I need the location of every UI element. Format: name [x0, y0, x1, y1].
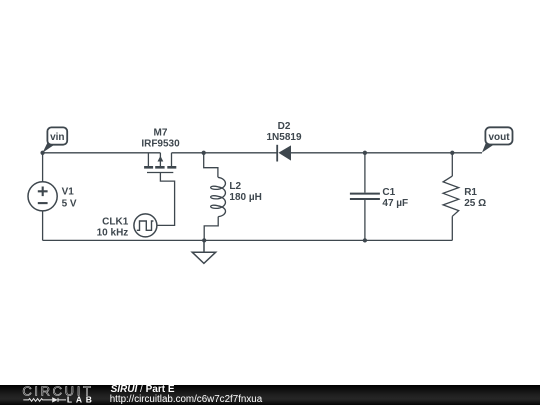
label R1	[464, 187, 486, 209]
node C1 top	[363, 151, 367, 155]
wire top-mid rail	[172, 152, 278, 154]
ground	[192, 240, 216, 263]
node L2 bottom	[202, 238, 206, 242]
diode D2	[277, 145, 291, 162]
svg-text:LAB: LAB	[67, 395, 92, 405]
svg-text:V1: V1	[62, 186, 75, 197]
label M7	[141, 128, 180, 150]
svg-text:CLK1: CLK1	[102, 217, 129, 228]
transistor M7 (PMOS)	[144, 153, 176, 173]
svg-text:5 V: 5 V	[62, 199, 77, 210]
svg-text:R1: R1	[464, 187, 477, 198]
svg-text:180 µH: 180 µH	[229, 192, 261, 203]
node vin	[40, 151, 44, 155]
label V1 value	[62, 186, 77, 209]
label CLK1	[97, 217, 129, 239]
svg-text:10 kHz: 10 kHz	[97, 227, 129, 238]
label L2	[229, 181, 261, 203]
wire top-left rail	[43, 152, 161, 154]
CircuitLab logo squiggle	[23, 397, 66, 402]
svg-text:http://circuitlab.com/c6w7c2f7: http://circuitlab.com/c6w7c2f7fnxua	[110, 394, 263, 405]
node L2 top	[202, 151, 206, 155]
wire left rail upper	[42, 153, 44, 182]
svg-text:IRF9530: IRF9530	[141, 139, 180, 150]
label D2	[266, 121, 301, 143]
inductor L2	[204, 153, 226, 241]
svg-text:M7: M7	[154, 128, 168, 139]
svg-text:D2: D2	[278, 121, 291, 132]
node R1 top	[450, 151, 454, 155]
capacitor C1	[350, 153, 380, 241]
wire gate to CLK1	[157, 173, 175, 226]
svg-text:C1: C1	[382, 187, 395, 198]
wire top-right rail	[291, 152, 482, 154]
wire left rail lower	[42, 211, 44, 241]
node C1 bottom	[363, 238, 367, 242]
svg-text:L2: L2	[229, 181, 241, 192]
svg-text:vin: vin	[50, 132, 64, 143]
label vout	[482, 127, 513, 152]
wire bottom rail	[43, 239, 453, 241]
svg-text:vout: vout	[488, 132, 510, 143]
svg-text:25 Ω: 25 Ω	[464, 198, 486, 209]
resistor R1	[443, 153, 459, 241]
label vin	[43, 127, 68, 152]
svg-text:1N5819: 1N5819	[266, 132, 301, 143]
voltage source V1	[28, 182, 57, 211]
clock source CLK1	[134, 214, 157, 237]
svg-text:47 µF: 47 µF	[382, 198, 408, 209]
label C1	[382, 187, 408, 209]
footer bar	[0, 385, 540, 405]
